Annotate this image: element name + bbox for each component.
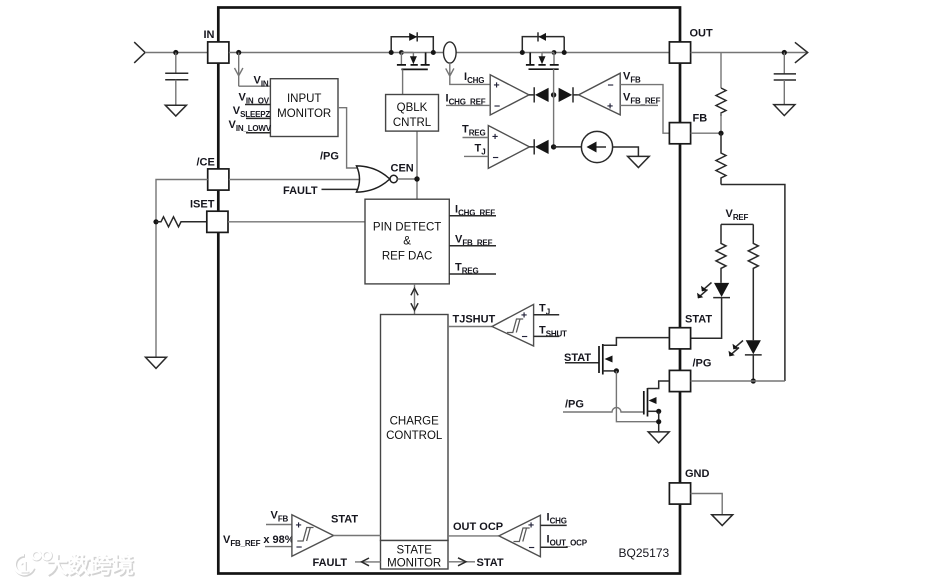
wire STAT arrow from state monitor <box>448 561 475 563</box>
svg-text:ISET: ISET <box>190 199 215 211</box>
output chevron <box>795 42 808 63</box>
svg-text:TJSHUT: TJSHUT <box>453 314 496 326</box>
wire node B to current source <box>554 146 582 148</box>
svg-text:+: + <box>607 101 613 113</box>
wire NOR out to CEN node <box>397 178 417 180</box>
block CHARGE CONTROL <box>381 315 449 541</box>
svg-text:VIN_OV: VIN_OV <box>239 91 270 105</box>
LED2 (/PG) <box>746 340 761 354</box>
svg-text:VFB: VFB <box>623 71 641 85</box>
svg-text:ICHG_REF: ICHG_REF <box>446 93 486 107</box>
svg-text:/PG: /PG <box>320 151 339 163</box>
svg-text:+: + <box>521 310 527 322</box>
svg-text:VFB_REF: VFB_REF <box>623 92 661 106</box>
svg-text:MONITOR: MONITOR <box>387 558 441 570</box>
block PIN DETECT & REF DAC <box>365 199 449 284</box>
svg-text:VIN_LOWV: VIN_LOWV <box>229 119 272 133</box>
wire FAULT arrow from state monitor <box>355 561 381 563</box>
transistor Q2 blocking FET <box>520 32 567 147</box>
capacitor C1 input <box>165 73 188 79</box>
op-amp ICHG comparator <box>490 75 529 115</box>
pin /PG <box>669 370 690 391</box>
wire Q2 gate down to diode node <box>553 69 555 147</box>
svg-text:OUT OCP: OUT OCP <box>453 521 503 533</box>
svg-text:−: − <box>529 542 535 554</box>
current source I1 <box>581 131 612 162</box>
svg-text:GND: GND <box>685 468 710 480</box>
svg-text:STAT: STAT <box>685 314 712 326</box>
svg-text:VIN: VIN <box>254 75 269 89</box>
block QBLK CNTRL <box>386 95 439 132</box>
resistor R_FB2 <box>716 133 726 184</box>
node VIN tap <box>236 50 241 55</box>
transistor Q4 /PG open-drain <box>563 381 669 432</box>
svg-text:ICHG: ICHG <box>464 71 484 85</box>
body diode D_Q1 <box>409 33 417 41</box>
svg-text:−: − <box>608 80 614 92</box>
body diode D_Q2 <box>539 33 546 41</box>
svg-text:FB: FB <box>693 113 708 125</box>
resistor R_LED1 <box>716 224 726 283</box>
wire VIN down-arrow to INPUT MONITOR <box>235 53 271 87</box>
svg-text:INPUT: INPUT <box>287 93 322 105</box>
svg-text:STAT: STAT <box>477 557 504 569</box>
wire GND pin to ground <box>691 494 723 515</box>
op-amp VFB comparator (points left) <box>579 73 621 115</box>
svg-text:VFB: VFB <box>271 510 289 524</box>
wire cap top <box>175 53 177 74</box>
pin OUT <box>669 42 690 63</box>
svg-text:QBLK: QBLK <box>397 102 428 114</box>
wire R1 to FB node <box>720 113 722 133</box>
hysteresis OUT OCP <box>514 528 530 542</box>
diode D3 <box>530 139 535 154</box>
wire QBLK CNTRL output <box>416 131 418 199</box>
wire out cap top <box>783 53 785 74</box>
wire FB pin to divider <box>691 132 721 134</box>
wire LED1 to STAT pin <box>691 297 722 338</box>
svg-text:/CE: /CE <box>197 157 215 169</box>
watermark logo <box>14 551 135 579</box>
block STATE MONITOR <box>381 541 449 570</box>
node LED2 junction <box>751 378 756 383</box>
svg-text:&: & <box>403 236 411 248</box>
svg-text:CONTROL: CONTROL <box>386 430 443 442</box>
svg-text:大数跨境: 大数跨境 <box>46 553 134 578</box>
ground GND pin <box>712 515 733 526</box>
wire /PG pin right <box>691 380 785 382</box>
transistor Q3 STAT open-drain <box>564 338 669 422</box>
bidirectional arrow PIN DETECT to CHARGE CONTROL <box>414 284 416 315</box>
block INPUT MONITOR <box>270 79 338 137</box>
wire ISET to PIN DETECT <box>228 221 365 223</box>
svg-text:+: + <box>528 520 534 532</box>
hysteresis VFB comparator <box>297 528 313 542</box>
svg-text:OUT: OUT <box>690 28 714 40</box>
wire VFB comparator to state monitor <box>334 535 381 537</box>
svg-text:MONITOR: MONITOR <box>277 108 331 120</box>
node diode junction A <box>551 92 556 97</box>
svg-text:+: + <box>494 80 500 92</box>
resistor R_ISET <box>156 217 207 227</box>
wire ICHG sense to comparator <box>446 63 491 84</box>
op-amp OUT OCP comparator (points left) <box>499 515 541 556</box>
wire VREF rail <box>721 223 753 225</box>
op-amp TJSHUT comparator (points left) <box>492 304 534 346</box>
svg-text:FAULT: FAULT <box>283 185 318 197</box>
diode D2 <box>559 88 573 102</box>
svg-text:−: − <box>493 152 499 164</box>
wire divider bottom to /PG net <box>721 185 785 382</box>
ground output cap <box>774 105 795 116</box>
svg-text:1: 1 <box>20 557 29 576</box>
transistor Q1 reverse-blocking FET <box>389 32 436 94</box>
svg-text:IN: IN <box>204 29 215 41</box>
svg-text:PIN DETECT: PIN DETECT <box>373 222 441 234</box>
ground /CE pulldown <box>146 357 167 368</box>
svg-text:IOUT_OCP: IOUT_OCP <box>547 534 588 548</box>
wire TJSHUT comparator to charge control <box>448 326 492 328</box>
svg-text:−: − <box>522 331 528 343</box>
wire OUT to feedback resistor <box>720 53 722 89</box>
pin ISET <box>207 211 228 232</box>
node ISET resistor junction <box>153 219 158 224</box>
wire /CE to NOR gate <box>229 179 362 181</box>
svg-text:REF DAC: REF DAC <box>382 251 432 263</box>
ground input cap <box>165 105 186 116</box>
wire /PG from INPUT MONITOR to NOR gate <box>338 108 358 168</box>
wire input to IN pin <box>145 52 208 54</box>
capacitor C2 output <box>774 74 796 80</box>
pin IN <box>208 42 229 63</box>
wire OUT rail to load <box>691 52 807 54</box>
wire LED2 to /PG net <box>752 355 754 381</box>
svg-text:ICHG: ICHG <box>547 512 567 526</box>
svg-text:/PG: /PG <box>693 358 712 370</box>
wire out cap bottom <box>783 80 785 105</box>
node output cap junction <box>782 50 787 55</box>
pin GND <box>669 483 690 504</box>
svg-text:TREG: TREG <box>462 124 485 138</box>
svg-text:STATE: STATE <box>397 545 433 557</box>
current sense element (oval) <box>444 42 457 63</box>
svg-text:FAULT: FAULT <box>313 557 348 569</box>
IC boundary BQ25173 <box>218 8 680 574</box>
wire rail IN to FET area <box>229 52 670 54</box>
hysteresis TJSHUT <box>507 319 523 333</box>
svg-text:CNTRL: CNTRL <box>393 117 432 129</box>
ground Q3/Q4 <box>648 432 669 443</box>
node input cap junction <box>173 50 178 55</box>
svg-text:−: − <box>296 542 302 554</box>
svg-text:−: − <box>494 101 500 113</box>
pin STAT <box>669 328 690 349</box>
input source chevron <box>134 42 145 63</box>
pin FB <box>669 123 690 144</box>
LED1 (STAT) <box>714 283 729 297</box>
LED1 emission arrows <box>698 283 712 298</box>
wire cap bottom <box>175 80 177 106</box>
diode D1 <box>529 87 534 102</box>
wire current source to ground <box>613 147 639 156</box>
NOR gate U2 <box>357 166 390 192</box>
svg-text:VREF: VREF <box>726 208 749 222</box>
svg-text:CHARGE: CHARGE <box>390 416 440 428</box>
ground current source <box>628 156 650 167</box>
svg-text:BQ25173: BQ25173 <box>619 546 670 560</box>
svg-text:VSLEEPZ: VSLEEPZ <box>233 105 271 119</box>
svg-text:+: + <box>492 131 498 143</box>
svg-text:TJ: TJ <box>475 143 486 157</box>
node diode junction B <box>551 144 556 149</box>
wire /CE left loop down <box>156 180 208 358</box>
op-amp VFB STAT comparator <box>292 515 334 557</box>
svg-text:STAT: STAT <box>331 514 358 526</box>
svg-text:+: + <box>296 520 302 532</box>
node FB divider <box>718 131 723 136</box>
svg-text:CEN: CEN <box>391 163 414 175</box>
op-amp TREG comparator <box>488 126 529 169</box>
node CEN <box>414 176 419 181</box>
resistor R_FB1 <box>716 88 726 116</box>
pin /CE <box>208 169 229 190</box>
svg-text:/PG: /PG <box>565 399 584 411</box>
wire OUT OCP comparator to charge control <box>448 535 499 537</box>
LED2 emission arrows <box>730 341 744 356</box>
resistor R_LED2 <box>748 224 758 340</box>
